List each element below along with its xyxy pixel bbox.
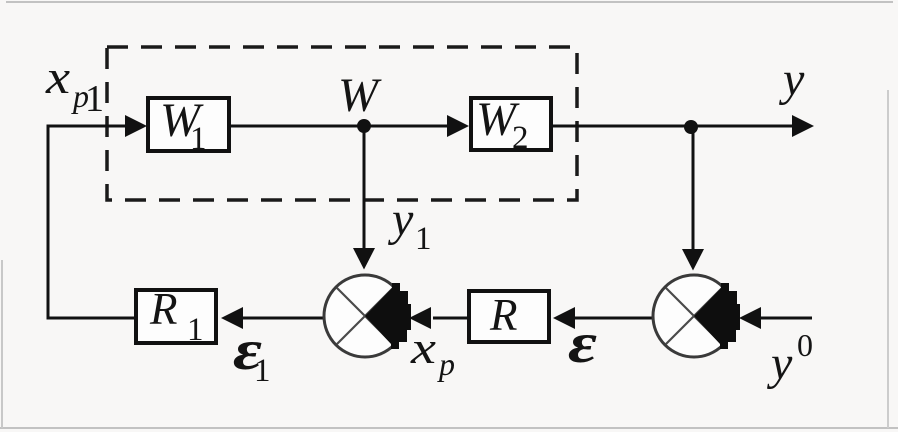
svg-text:0: 0 bbox=[797, 327, 813, 363]
svg-text:y: y bbox=[778, 53, 805, 106]
svg-text:R: R bbox=[149, 284, 178, 334]
svg-text:R: R bbox=[489, 290, 518, 340]
svg-text:ε: ε bbox=[568, 311, 597, 374]
svg-text:1: 1 bbox=[190, 121, 207, 157]
svg-text:x: x bbox=[410, 324, 437, 373]
svg-text:y: y bbox=[387, 193, 414, 246]
svg-text:x: x bbox=[45, 51, 70, 104]
svg-text:1: 1 bbox=[254, 353, 271, 389]
svg-text:2: 2 bbox=[512, 120, 529, 156]
svg-text:y: y bbox=[766, 337, 793, 390]
svg-text:1: 1 bbox=[85, 78, 104, 120]
svg-text:W: W bbox=[338, 69, 382, 122]
svg-text:1: 1 bbox=[187, 312, 204, 348]
svg-text:1: 1 bbox=[415, 221, 432, 257]
svg-text:p: p bbox=[437, 346, 455, 382]
